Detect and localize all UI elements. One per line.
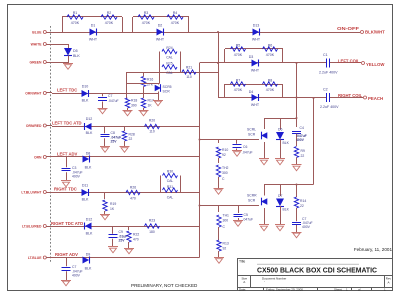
- svg-text:Document Number: Document Number: [262, 277, 286, 281]
- svg-text:R17: R17: [148, 99, 154, 103]
- svg-text:R6: R6: [268, 44, 273, 48]
- svg-text:400V: 400V: [72, 175, 81, 179]
- svg-text:470K: 470K: [266, 88, 275, 92]
- svg-text:Sheet: Sheet: [334, 287, 342, 291]
- svg-text:Friday, September 29, 2000: Friday, September 29, 2000: [266, 287, 303, 291]
- svg-text:-: -: [264, 280, 265, 284]
- svg-text:ORN: ORN: [34, 155, 42, 159]
- svg-text:LEFT COIL: LEFT COIL: [338, 58, 360, 63]
- svg-text:Date:: Date:: [239, 287, 246, 291]
- svg-text:D2: D2: [158, 24, 163, 28]
- svg-text:D10: D10: [82, 85, 89, 89]
- svg-text:400V: 400V: [302, 225, 311, 229]
- svg-text:470K: 470K: [105, 21, 114, 25]
- svg-text:2.2uF 400V: 2.2uF 400V: [319, 71, 338, 75]
- svg-text:D9: D9: [86, 253, 91, 257]
- svg-text:470K: 470K: [266, 53, 275, 57]
- svg-text:2.2uF 400V: 2.2uF 400V: [320, 105, 339, 109]
- svg-text:470K: 470K: [234, 53, 243, 57]
- svg-text:BLK: BLK: [283, 141, 290, 145]
- svg-text:R25: R25: [166, 62, 172, 66]
- svg-text:D4: D4: [249, 90, 254, 94]
- svg-text:D11: D11: [82, 184, 88, 188]
- svg-text:R19: R19: [110, 202, 116, 206]
- svg-text:R20: R20: [149, 119, 155, 123]
- svg-text:R4: R4: [173, 11, 178, 15]
- svg-text:SCRR: SCRR: [247, 194, 257, 198]
- svg-text:BLK: BLK: [86, 131, 93, 135]
- svg-text:WHT: WHT: [156, 38, 165, 42]
- svg-text:BLK: BLK: [73, 54, 80, 58]
- svg-text:R18: R18: [131, 99, 137, 103]
- svg-text:R16: R16: [147, 78, 153, 82]
- svg-text:110: 110: [149, 130, 155, 134]
- svg-text:LEFT TDC ATD: LEFT TDC ATD: [52, 120, 82, 125]
- svg-text:LEFT TDC: LEFT TDC: [57, 88, 77, 93]
- svg-text:470: 470: [133, 238, 139, 242]
- svg-text:C9: C9: [119, 230, 123, 234]
- svg-text:R22: R22: [133, 233, 139, 237]
- svg-text:470K: 470K: [71, 21, 80, 25]
- svg-text:LT.BLUE: LT.BLUE: [28, 256, 42, 260]
- svg-text:400V: 400V: [72, 274, 81, 278]
- svg-text:SCR5: SCR5: [163, 85, 172, 89]
- svg-text:YELLOW: YELLOW: [366, 62, 385, 67]
- svg-text:.047uF: .047uF: [108, 99, 119, 103]
- svg-text:R28: R28: [129, 133, 135, 137]
- svg-text:180: 180: [149, 230, 155, 234]
- svg-text:D3: D3: [249, 55, 254, 59]
- svg-text:ORN/WHT: ORN/WHT: [25, 91, 42, 95]
- svg-text:WHT: WHT: [251, 103, 260, 107]
- svg-text:CAL: CAL: [167, 196, 174, 200]
- svg-text:SCR: SCR: [248, 199, 256, 203]
- svg-text:R10: R10: [222, 148, 228, 152]
- svg-text:C2: C2: [323, 88, 328, 92]
- svg-text:R7: R7: [236, 79, 241, 83]
- svg-text:WHT: WHT: [252, 38, 261, 42]
- svg-text:470: 470: [130, 197, 136, 201]
- svg-text:RIGHT TDC: RIGHT TDC: [54, 186, 77, 191]
- svg-text:R2: R2: [107, 11, 112, 15]
- svg-text:GREEN: GREEN: [29, 60, 42, 64]
- svg-text:BLK: BLK: [283, 208, 290, 212]
- svg-text:February, 11, 2001: February, 11, 2001: [354, 247, 393, 252]
- svg-text:CAL: CAL: [166, 71, 173, 75]
- svg-text:C7: C7: [108, 94, 112, 98]
- svg-text:R8: R8: [268, 79, 273, 83]
- svg-text:110: 110: [186, 75, 192, 79]
- svg-text:R23: R23: [149, 219, 155, 223]
- svg-text:WHT: WHT: [251, 69, 260, 73]
- svg-text:BLK: BLK: [82, 99, 89, 103]
- svg-text:SCR: SCR: [248, 133, 256, 137]
- svg-text:D12: D12: [86, 218, 93, 222]
- svg-text:C5: C5: [244, 213, 248, 217]
- svg-text:C6: C6: [243, 145, 247, 149]
- svg-text:ORN/RED: ORN/RED: [26, 124, 42, 128]
- svg-text:CAL: CAL: [166, 56, 173, 60]
- svg-text:Title: Title: [239, 260, 245, 264]
- svg-text:C7: C7: [72, 265, 76, 269]
- svg-text:300: 300: [223, 219, 229, 223]
- svg-text:1K: 1K: [110, 207, 115, 211]
- svg-text:R30: R30: [167, 170, 173, 174]
- svg-text:C3: C3: [72, 166, 76, 170]
- svg-text:.047uF: .047uF: [243, 218, 254, 222]
- svg-text:RIGHT COIL: RIGHT COIL: [338, 93, 363, 98]
- svg-text:CX500 BLACK BOX CDI SCHEMATIC: CX500 BLACK BOX CDI SCHEMATIC: [257, 265, 378, 274]
- svg-text:300: 300: [222, 171, 228, 175]
- svg-text:92: 92: [222, 153, 226, 157]
- svg-text:WHT: WHT: [89, 38, 98, 42]
- svg-text:R14: R14: [300, 199, 306, 203]
- svg-text:22: 22: [300, 204, 304, 208]
- svg-text:92: 92: [223, 247, 227, 251]
- svg-text:of: of: [358, 287, 361, 291]
- svg-text:TH2: TH2: [222, 166, 229, 170]
- svg-text:R26: R26: [130, 186, 136, 190]
- svg-text:R21: R21: [186, 66, 192, 70]
- svg-text:R9: R9: [301, 149, 305, 153]
- svg-text:D12: D12: [86, 117, 93, 121]
- svg-text:BLK: BLK: [85, 166, 92, 170]
- svg-text:400V: 400V: [296, 138, 305, 142]
- svg-text:D7: D7: [278, 194, 282, 198]
- svg-text:BLK/WHT: BLK/WHT: [365, 29, 385, 34]
- svg-text:25V: 25V: [119, 239, 126, 243]
- svg-text:C4: C4: [300, 126, 304, 130]
- svg-text:PRELIMINARY, NOT CHECKED: PRELIMINARY, NOT CHECKED: [131, 283, 198, 288]
- svg-text:SCR: SCR: [163, 90, 171, 94]
- svg-text:470K: 470K: [142, 21, 151, 25]
- svg-text:R31: R31: [167, 185, 173, 189]
- svg-text:22: 22: [129, 137, 133, 141]
- svg-text:22: 22: [301, 154, 305, 158]
- svg-text:D13: D13: [253, 24, 260, 28]
- svg-text:R24: R24: [166, 46, 172, 50]
- svg-text:RIGHT ADV: RIGHT ADV: [55, 252, 78, 257]
- svg-text:TH1: TH1: [223, 214, 230, 218]
- svg-text:R1: R1: [73, 11, 78, 15]
- svg-text:RIGHT TDC ATD: RIGHT TDC ATD: [51, 221, 83, 226]
- svg-text:SCRL: SCRL: [247, 128, 256, 132]
- svg-text:CAL: CAL: [167, 179, 174, 183]
- svg-text:R3: R3: [144, 11, 149, 15]
- svg-text:LT.BLU/RED: LT.BLU/RED: [22, 224, 42, 228]
- svg-text:WHITE: WHITE: [31, 42, 43, 46]
- svg-text:470K: 470K: [234, 88, 243, 92]
- svg-text:C8: C8: [111, 131, 115, 135]
- svg-text:R5: R5: [236, 44, 241, 48]
- svg-text:1K: 1K: [148, 104, 153, 108]
- svg-text:390: 390: [131, 104, 137, 108]
- svg-text:D1: D1: [91, 24, 96, 28]
- svg-text:PEACH: PEACH: [368, 96, 383, 101]
- svg-text:25V: 25V: [111, 140, 118, 144]
- svg-text:BLK: BLK: [85, 267, 92, 271]
- svg-text:C1: C1: [323, 53, 328, 57]
- svg-text:LEFT ADV: LEFT ADV: [57, 151, 78, 156]
- svg-text:D5: D5: [73, 49, 78, 53]
- svg-text:470K: 470K: [171, 21, 180, 25]
- svg-text:ON-OFF: ON-OFF: [337, 26, 360, 31]
- svg-text:.047uF: .047uF: [242, 151, 253, 155]
- svg-text:D6: D6: [278, 128, 282, 132]
- svg-text:BLK: BLK: [82, 198, 89, 202]
- svg-text:D8: D8: [86, 152, 91, 156]
- svg-text:BLK: BLK: [86, 232, 93, 236]
- svg-text:BLUE: BLUE: [32, 30, 42, 34]
- svg-text:R13: R13: [223, 242, 229, 246]
- svg-text:LT.BLU/WHT: LT.BLU/WHT: [21, 190, 42, 194]
